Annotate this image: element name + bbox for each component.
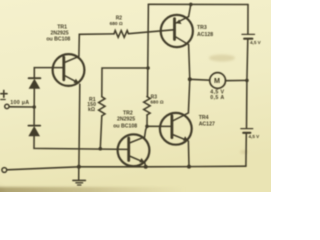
- wire TR4 emitter to ground rail: [187, 141, 190, 167]
- node junction TR4 emitter: [187, 165, 191, 169]
- svg-text:4,5 V: 4,5 V: [250, 40, 262, 45]
- resistor R1: [99, 97, 105, 116]
- label TR2 2N2925 ou BC108: [113, 110, 137, 129]
- svg-text:TR4: TR4: [199, 115, 209, 121]
- svg-text:ou BC108: ou BC108: [113, 123, 137, 129]
- wire bottom rail: [7, 166, 246, 170]
- wire R2 to TR3 base: [129, 30, 174, 34]
- svg-text:kΩ: kΩ: [88, 107, 95, 113]
- wire TR4 collector up to motor node: [188, 79, 189, 113]
- diode D1: [29, 78, 41, 89]
- label TR3 AC128: [197, 25, 213, 38]
- wire TR3 emitter to top rail: [189, 4, 191, 16]
- battery B1: [242, 34, 255, 38]
- node junction R1/R3 top: [146, 66, 150, 70]
- svg-text:R3: R3: [151, 94, 158, 100]
- node junction ground: [77, 165, 81, 169]
- svg-text:AC127: AC127: [199, 121, 215, 127]
- wire mid node to battery B2: [246, 80, 248, 128]
- node junction TR2 emitter: [144, 165, 148, 169]
- wire between diodes: [33, 89, 35, 125]
- wire battery B1 to mid node: [246, 40, 249, 81]
- label motor 4,5V 0,5A: [210, 89, 224, 100]
- wire R3 bottom to node: [146, 115, 148, 126]
- node junction input tap: [32, 105, 36, 109]
- svg-text:TR3: TR3: [197, 25, 207, 31]
- wire node to TR4 base: [147, 125, 171, 127]
- label plus sign: [1, 90, 7, 99]
- wire motor right: [226, 79, 247, 81]
- label TR1 2N2925 ou BC108: [46, 25, 70, 43]
- wire TR1 collector to R2: [79, 34, 114, 56]
- motor M: [210, 73, 226, 89]
- svg-text:2N2925: 2N2925: [117, 116, 135, 122]
- svg-text:AC128: AC128: [197, 32, 213, 38]
- svg-text:M: M: [214, 76, 220, 85]
- wire TR1 emitter down to ground rail: [78, 84, 81, 167]
- label TR4 AC127: [199, 115, 215, 127]
- node junction battery mid: [245, 79, 249, 83]
- label R1 150 kOhm: [87, 97, 96, 113]
- diode D2: [28, 126, 40, 137]
- wire battery B2 down to bottom rail: [245, 134, 247, 166]
- paper background: [0, 0, 271, 192]
- transistor TR3: [161, 15, 193, 47]
- wire main vertical from top rail down to R3: [147, 4, 150, 96]
- svg-text:2N2925: 2N2925: [51, 30, 69, 36]
- node junction motor left: [188, 77, 192, 81]
- battery B2: [241, 129, 253, 133]
- terminal input minus: [2, 168, 7, 173]
- wire TR2 emitter to ground rail: [145, 163, 146, 167]
- node junction top rail / TR3 emitter: [189, 3, 193, 7]
- transistor TR1: [53, 54, 85, 86]
- svg-text:R2: R2: [116, 15, 123, 21]
- wire top rail: [148, 3, 248, 5]
- resistor R2: [114, 31, 129, 38]
- wire right vertical top: [247, 5, 249, 35]
- wire input terminal to diode chain: [10, 106, 34, 108]
- svg-text:680 Ω: 680 Ω: [150, 100, 163, 106]
- svg-text:ou BC108: ou BC108: [46, 37, 70, 43]
- svg-text:0,5 A: 0,5 A: [210, 95, 224, 101]
- transistor TR4: [160, 113, 192, 145]
- wire TR2 collector up to node: [145, 126, 148, 137]
- label R2 680 Ohm: [110, 15, 123, 27]
- terminal input plus: [5, 104, 9, 108]
- wire TR3 collector down to motor node: [189, 45, 190, 80]
- svg-text:4,5 V: 4,5 V: [249, 134, 261, 139]
- node junction R1 bottom: [99, 147, 103, 151]
- node junction R3/TR2/TR4 base: [145, 125, 149, 129]
- wire diode branch top to TR1 base: [34, 68, 62, 78]
- wire R1 top branch: [102, 68, 148, 97]
- resistor R3: [144, 97, 150, 115]
- wire R1 bottom to TR2 base wire: [100, 116, 102, 149]
- wire motor left: [190, 78, 210, 81]
- svg-text:100 μA: 100 μA: [10, 100, 29, 106]
- transistor TR2: [118, 134, 150, 166]
- svg-text:680 Ω: 680 Ω: [110, 21, 123, 27]
- ground: [73, 167, 86, 185]
- wire diode D2 bottom to TR2 base: [34, 136, 128, 149]
- label R3 680 Ohm: [150, 94, 163, 105]
